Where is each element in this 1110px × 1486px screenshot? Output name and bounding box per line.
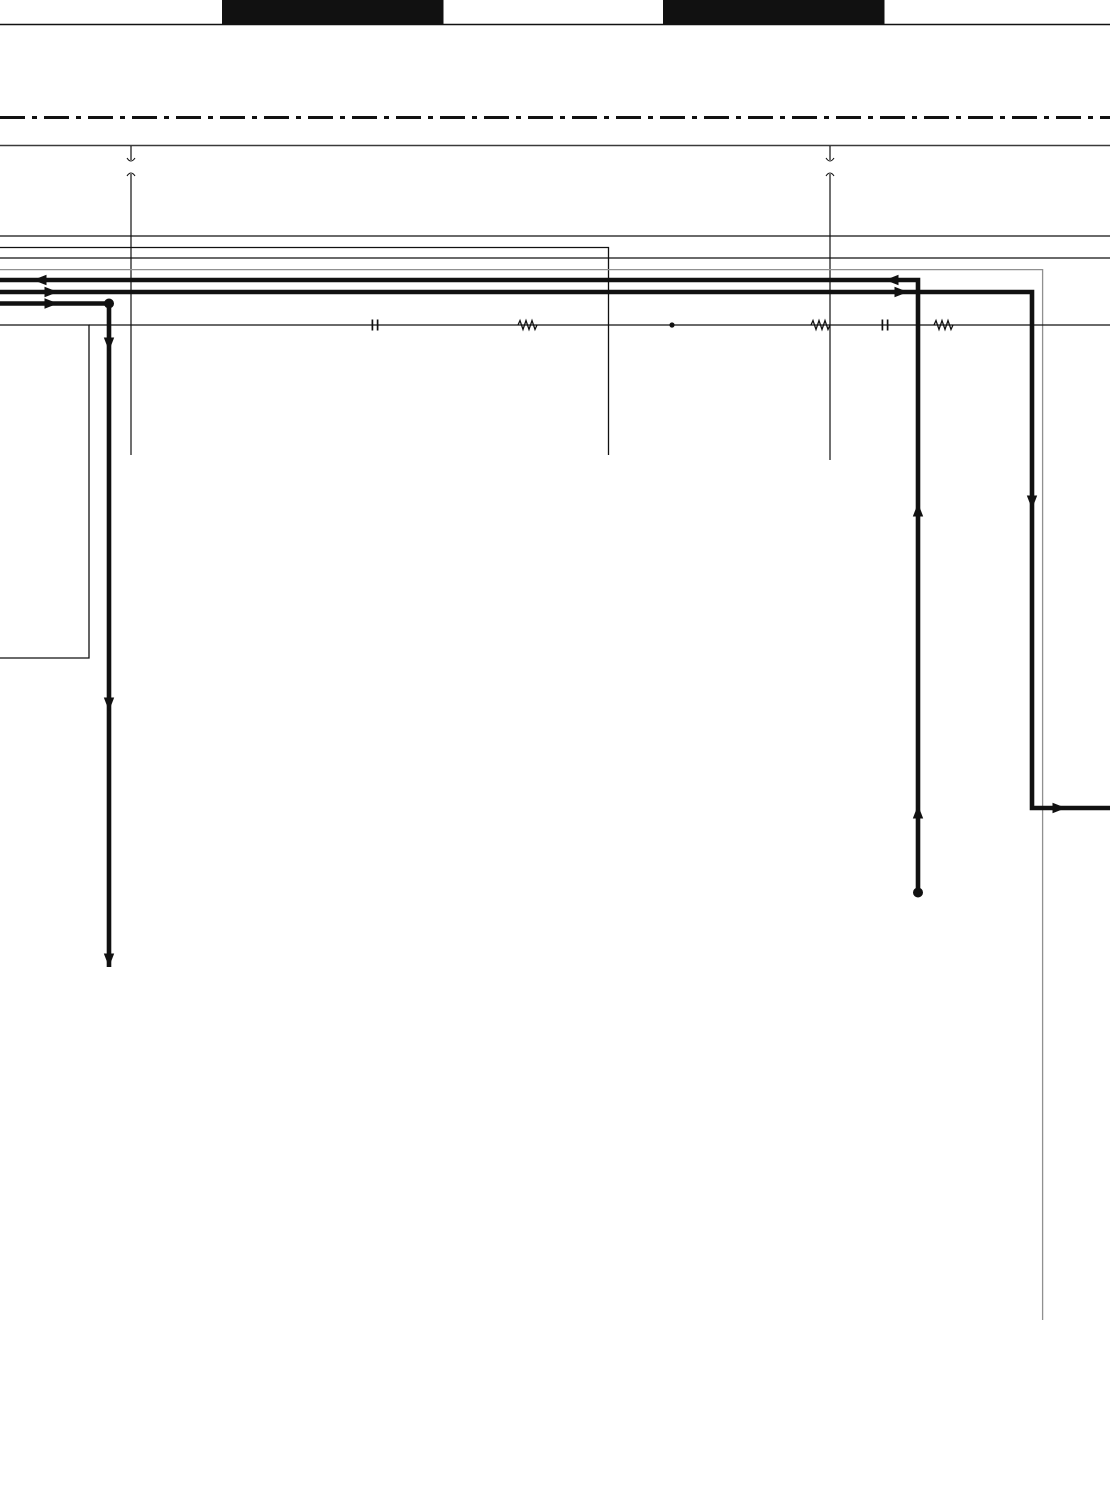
wire x830 resume [826,173,834,176]
header black box left [222,0,444,24]
arrow down on bus C at y967 [104,954,114,968]
wire stub x131 from frame [130,146,132,160]
shield frame top edge [0,145,1110,147]
arrow left on bus A at x40 [33,275,47,285]
page header rule [0,24,1110,26]
arrow down on bus B at y503 [1027,496,1037,510]
arrow up on bus A at y811 [913,805,923,819]
arrow left on bus A at x892 [885,275,899,285]
bus wire y258 [0,257,1110,259]
wire y325 chain [89,324,1110,326]
bus wire y236 [0,235,1110,237]
thick bus C y303 [0,304,109,968]
resistor on y325 at x820 [811,321,830,330]
wire stub x830 from frame [829,146,831,160]
board boundary dash-dot top [0,116,1110,119]
junction bus C corner [104,299,114,309]
arrow down on bus C at y705 [104,698,114,712]
arrow right on bus B at x51 [45,287,59,297]
junction bus A to y893 rail [913,888,923,898]
gray frame wire y269 [0,270,1043,1320]
arrow down on bus C at y345 [104,338,114,352]
bus wire y247 with corner down at x608 [0,248,609,456]
resistor on y325 at x527 [518,321,537,330]
arrow right on bus B at x901 [895,287,909,297]
frame wire x89 box [0,325,89,658]
junction y325 x672 [669,322,674,327]
capacitor on y325 at x885 [881,320,883,331]
arrow right on bus C at x51 [45,298,59,308]
thick bus B y292 [0,292,1110,808]
wire x131 resume [127,173,135,176]
capacitor on y325 at x375 [371,320,373,331]
resistor on y325 at x943 [934,321,953,330]
arrow up on bus A at y509 [913,503,923,517]
thick bus A y280 [0,280,918,893]
arrow right on bus B exit [1053,803,1067,813]
header black box right [663,0,885,24]
